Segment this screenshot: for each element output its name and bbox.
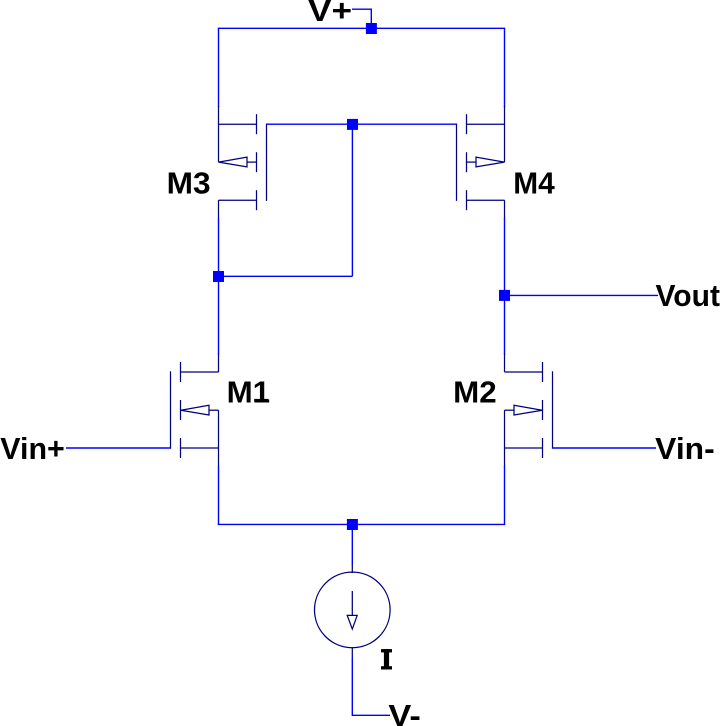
svg-text:M3: M3 <box>167 166 211 200</box>
wire M1 source drop <box>218 466 220 524</box>
svg-text:M4: M4 <box>513 166 555 200</box>
wire Vout <box>505 294 659 296</box>
wire source bottom lead <box>352 658 390 715</box>
current source I1 <box>315 564 391 658</box>
transistor M3 <box>219 106 267 219</box>
wire tail drop <box>351 524 353 564</box>
wire right mid drop to M2 <box>504 295 506 354</box>
wire Vin- <box>553 447 657 449</box>
svg-text:Vin+: Vin+ <box>0 432 65 466</box>
svg-text:V-: V- <box>388 699 421 726</box>
svg-text:Vin-: Vin- <box>655 432 715 466</box>
transistor M2 <box>505 354 553 467</box>
wire left drop from rail <box>218 28 220 107</box>
wire tail bus <box>218 523 505 525</box>
wire M4 drain lead <box>504 218 506 295</box>
wire gate mirror bus <box>267 123 457 125</box>
svg-text:M1: M1 <box>227 376 271 410</box>
wire diode connection <box>219 275 353 277</box>
wire M2 source drop <box>504 466 506 524</box>
junction Vout node <box>499 290 510 301</box>
junction V+ tap <box>366 23 377 34</box>
svg-text:M2: M2 <box>453 376 497 410</box>
junction M3 drain node <box>213 271 224 282</box>
wire top rail <box>218 27 505 29</box>
wire left mid drop to M1 <box>218 276 220 354</box>
wire right drop from rail <box>504 28 506 107</box>
label I <box>381 649 392 669</box>
wire M3 drain lead <box>218 218 220 276</box>
junction tail node <box>347 519 358 530</box>
wire V+ lead <box>352 9 371 28</box>
svg-text:V+: V+ <box>308 0 352 28</box>
wire Vin+ <box>66 447 171 449</box>
junction mirror gates <box>347 119 358 130</box>
transistor M4 <box>457 106 505 219</box>
wire mirror gate drop <box>351 124 353 276</box>
transistor M1 <box>171 354 219 467</box>
svg-text:Vout: Vout <box>656 279 721 313</box>
